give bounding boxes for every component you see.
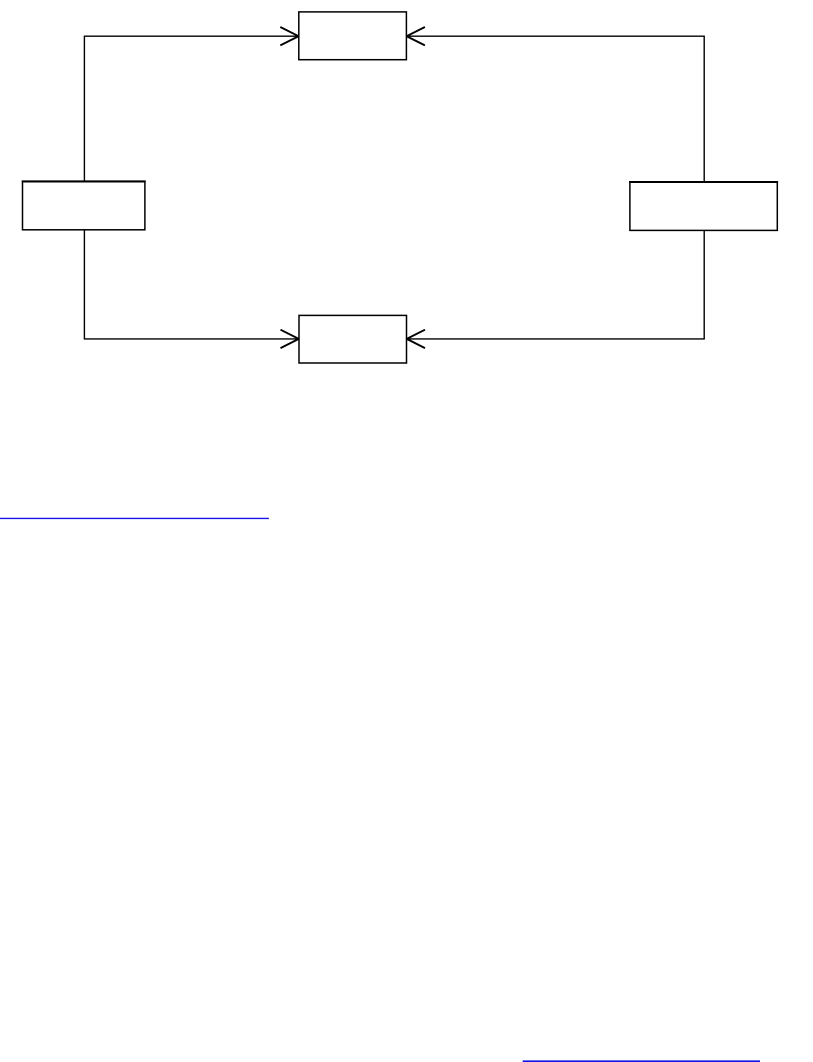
box: right process box top edge (thicker)	[629, 181, 778, 183]
wire: left vertical (top segment)	[83, 36, 85, 181]
wire: right vertical (bottom segment)	[703, 230, 705, 339]
arrowhead: into bottom box, right side (points left)	[407, 330, 425, 348]
wire: bottom-left horizontal	[84, 338, 299, 340]
wire: top-left horizontal	[84, 35, 299, 37]
blue rule: bottom-right hyperlink underline (clipped at page bottom)	[523, 1060, 760, 1062]
box: left process box top edge (thicker)	[22, 180, 146, 182]
arrowhead: into bottom box, left side (points right)	[281, 330, 299, 348]
arrowhead: into top box, right side (points left)	[407, 27, 425, 45]
box: top process box	[299, 12, 407, 60]
wire: left vertical (bottom segment)	[83, 230, 85, 339]
box: bottom process box	[299, 315, 407, 363]
wire: right vertical (top segment)	[703, 36, 705, 182]
box: right process box	[630, 182, 777, 230]
box: left process box	[23, 181, 145, 229]
blue rule: mid-left hyperlink underline	[0, 517, 269, 519]
wire: top-right horizontal	[407, 35, 705, 37]
arrowhead: into top box, left side (points right)	[280, 27, 298, 45]
wire: bottom-right horizontal	[407, 338, 705, 340]
